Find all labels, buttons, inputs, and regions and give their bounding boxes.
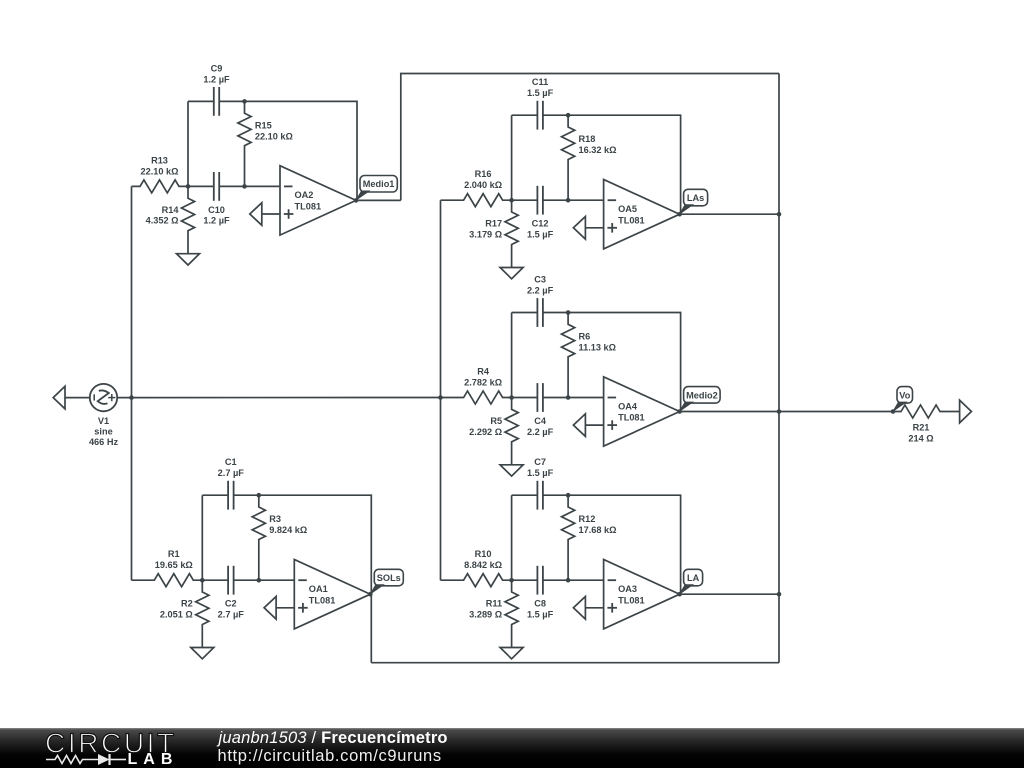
top feedback wire (left of C7) [512,494,538,496]
node OA2 junction dot [186,184,191,189]
resistor R10 (8.842 k&#937;) with input lead wires [441,574,512,587]
svg-text:TL081: TL081 [618,413,645,423]
svg-text:LAs: LAs [687,193,704,203]
wire port arrow to OA5 plus input [585,227,603,229]
svg-text:22.10 kΩ: 22.10 kΩ [140,166,178,176]
wire from OA2 output up and across the top [401,74,779,201]
top feedback wire (left of C3) [512,312,538,314]
junction dot at R18 bottom node [566,198,571,203]
wire node to C12 [512,199,538,201]
svg-text:R2: R2 [181,599,193,609]
svg-text:Medio1: Medio1 [363,179,395,189]
svg-text:4.352 Ω: 4.352 Ω [146,216,179,226]
svg-text:2.7 µF: 2.7 µF [218,610,245,620]
svg-text:2.051 Ω: 2.051 Ω [160,610,193,620]
junction dot at R12 bottom node [566,578,571,583]
svg-text:17.68 kΩ: 17.68 kΩ [579,525,617,535]
top feedback wire (left of C11) [512,114,538,116]
resistor R16 (2.040 k&#937;) with input lead wires [441,194,512,207]
svg-text:16.32 kΩ: 16.32 kΩ [579,145,617,155]
wire V1 to input buses [117,397,440,399]
svg-text:2.040 kΩ: 2.040 kΩ [464,180,502,190]
svg-text:R21: R21 [913,423,930,433]
wire OA5 output to right bus [680,213,779,215]
resistor R5 (2.292 &#937;) to ground [505,398,518,465]
node OA1 junction dot [200,578,205,583]
junction dot on right bus at OA5 output [777,212,782,217]
svg-text:TL081: TL081 [295,202,322,212]
wire C12 to op-amp inverting input [543,199,604,201]
svg-text:LA: LA [687,573,700,583]
op-amp OA4 (TL081) triangle [604,377,680,446]
junction dot at R6 top node [566,310,571,315]
resistor R17 (3.179 &#937;) to ground [505,200,518,267]
CircuitLab logo text LAB [128,752,179,768]
svg-text:11.13 kΩ: 11.13 kΩ [579,343,617,353]
op-amp OA4 non-inverting input plus sign [607,424,617,426]
resistor R1 (19.65 k&#937;) with input lead wires [132,574,203,587]
svg-text:3.289 Ω: 3.289 Ω [469,610,502,620]
resistor R4 (2.782 k&#937;) with input lead wires [441,391,512,404]
op-amp OA2 (TL081) triangle [280,166,356,235]
capacitor C12 (1.5 &#181;F) [536,186,538,215]
ground symbol below R14 [177,254,200,265]
op-amp OA5 (TL081) triangle [604,180,680,249]
op-amp OA4 inverting input minus sign [608,397,617,399]
footer url line [218,748,442,765]
left vertical bus wire [131,186,133,580]
wire OA2 output to top-right corner riser [356,199,401,201]
svg-text:TL081: TL081 [618,595,645,605]
node flag LA at OA3 output [684,569,703,586]
wire node to C8 [512,579,538,581]
capacitor C10 (1.2 &#181;F) [213,172,215,201]
capacitor C9 (1.2 &#181;F) [213,87,215,116]
capacitor C2 (2.7 &#181;F) [227,566,229,595]
svg-text:1.2 µF: 1.2 µF [203,74,230,84]
junction dot at R3 top node [257,493,262,498]
svg-text:2.2 µF: 2.2 µF [527,286,554,296]
wire port arrow to OA4 plus input [585,424,603,426]
svg-text:TL081: TL081 [618,215,645,225]
ground symbol below R17 [500,268,523,279]
wire C2 to op-amp inverting input [234,579,295,581]
svg-text:1.2 µF: 1.2 µF [203,216,230,226]
node flag Medio2 at OA4 output [684,387,721,404]
svg-text:C4: C4 [534,416,547,426]
svg-text:R15: R15 [255,120,272,130]
svg-text:C7: C7 [534,457,546,467]
svg-text:TL081: TL081 [309,595,336,605]
op-amp OA5 inverting input minus sign [608,199,617,201]
top feedback wire (right of C7) down to output [543,495,681,594]
footer branding bar [0,728,1024,768]
junction dot on right bus at OA4 output [777,409,782,414]
CircuitLab logo resistor-diode glyph [44,752,128,767]
capacitor C7 (1.5 &#181;F) [536,481,538,510]
top feedback wire (right of C11) down to output [543,115,681,214]
svg-text:C3: C3 [534,275,546,285]
svg-text:R5: R5 [490,416,502,426]
svg-text:1.5 µF: 1.5 µF [527,230,554,240]
wire node to C10 [188,185,214,187]
svg-text:1.5 µF: 1.5 µF [527,88,554,98]
junction dot at R18 top node [566,113,571,118]
svg-text:Vo: Vo [899,390,910,400]
right vertical bus wire [778,74,780,663]
junction dot at R3 bottom node [257,578,262,583]
svg-text:2.2 µF: 2.2 µF [527,427,554,437]
svg-text:3.179 Ω: 3.179 Ω [469,230,502,240]
resistor R2 (2.051 &#937;) to ground [196,580,209,647]
svg-text:R4: R4 [477,366,490,376]
svg-text:R6: R6 [579,332,591,342]
capacitor C1 (2.7 &#181;F) [227,481,229,510]
resistor R15 (22.10 k&#937;) feedback [238,101,251,186]
node flag SOLs at OA1 output [374,569,403,586]
svg-text:R12: R12 [579,514,596,524]
node flag Medio1 at OA2 output [360,176,397,193]
svg-text:1.5 µF: 1.5 µF [527,610,554,620]
svg-text:SOLs: SOLs [377,573,401,583]
port arrow at OA1 non-inverting input [264,597,276,620]
svg-text:214 Ω: 214 Ω [908,433,933,443]
svg-text:OA5: OA5 [618,204,637,214]
junction dot at R15 top node [242,99,247,104]
svg-text:2.782 kΩ: 2.782 kΩ [464,377,502,387]
svg-text:R14: R14 [162,205,180,215]
wire OA3 output to right bus [680,593,779,595]
op-amp OA1 non-inverting input plus sign [298,607,308,609]
op-amp OA3 non-inverting input plus sign [607,607,617,609]
port arrow at OA2 non-inverting input [250,203,262,226]
svg-text:8.842 kΩ: 8.842 kΩ [464,560,502,570]
svg-text:1.5 µF: 1.5 µF [527,468,554,478]
svg-text:C2: C2 [225,599,237,609]
svg-text:R3: R3 [269,514,281,524]
resistor R12 (17.68 k&#937;) feedback [562,495,575,580]
wire node to C4 [512,397,538,399]
resistor R3 (9.824 k&#937;) feedback [252,495,265,580]
ground symbol below R2 [191,648,214,659]
op-amp OA1 (TL081) triangle [294,560,370,629]
svg-text:OA2: OA2 [295,190,314,200]
capacitor C4 (2.2 &#181;F) [536,383,538,412]
wire C10 to op-amp inverting input [219,185,280,187]
resistor R11 (3.289 &#937;) to ground [505,580,518,647]
svg-text:OA4: OA4 [618,401,638,411]
op-amp OA1 inverting input minus sign [298,579,307,581]
svg-text:OA3: OA3 [618,584,637,594]
wire input arrow to V1 [65,397,90,399]
port arrow at circuit input (left) [53,386,65,409]
svg-text:Medio2: Medio2 [686,390,718,400]
svg-text:2.7 µF: 2.7 µF [218,468,245,478]
wire riser from node up to feedback branch [511,115,513,200]
svg-text:466 Hz: 466 Hz [89,437,119,447]
wire port arrow to OA3 plus input [585,607,603,609]
wire node to C2 [202,579,228,581]
capacitor C3 (2.2 &#181;F) [536,298,538,327]
wire OA1 output down to bottom bus [370,594,372,663]
capacitor C8 (1.5 &#181;F) [536,566,538,595]
top feedback wire (right of C1) down to output [234,495,372,594]
node OA3 junction dot [509,578,514,583]
node flag Vo [897,387,913,404]
svg-text:2.292 Ω: 2.292 Ω [469,427,502,437]
ground symbol below R11 [500,648,523,659]
svg-text:sine: sine [94,427,112,437]
svg-text:19.65 kΩ: 19.65 kΩ [155,560,193,570]
svg-text:R18: R18 [579,134,596,144]
svg-text:R11: R11 [486,599,502,609]
bottom bus wire [371,662,779,664]
svg-text:9.824 kΩ: 9.824 kΩ [269,525,307,535]
op-amp OA3 (TL081) triangle [604,560,680,629]
op-amp OA5 non-inverting input plus sign [607,227,617,229]
wire port arrow to OA2 plus input [262,213,280,215]
svg-text:R17: R17 [485,219,502,229]
top feedback wire (right of C3) down to output [543,313,681,412]
op-amp OA3 inverting input minus sign [608,579,617,581]
svg-text:C1: C1 [225,457,237,467]
top feedback wire (left of C1) [202,494,228,496]
wire right bus to R21 [779,405,960,418]
port arrow at OA3 non-inverting input [573,597,585,620]
wire riser from node up to feedback branch [511,495,513,580]
node flag LAs at OA5 output [684,189,708,206]
port arrow at OA5 non-inverting input [573,217,585,240]
svg-text:V1: V1 [98,416,109,426]
node OA4 junction dot [509,395,514,400]
ground symbol below R5 [500,465,523,476]
svg-text:R13: R13 [151,155,168,165]
CircuitLab logo text CIRCUIT [0,728,220,768]
junction dot on right bus at OA3 output [777,592,782,597]
junction dot V1 wire x left bus [129,395,134,400]
svg-text:C12: C12 [532,219,549,229]
op-amp OA2 non-inverting input plus sign [284,213,294,215]
svg-text:R10: R10 [475,549,492,559]
wire riser from node up to feedback branch [201,495,203,580]
voltage source V1 (sine 466 Hz) [90,384,117,411]
capacitor C11 (1.5 &#181;F) [536,101,538,130]
top feedback wire (left of C9) [188,100,214,102]
svg-text:22.10 kΩ: 22.10 kΩ [255,131,293,141]
svg-text:C11: C11 [532,77,548,87]
junction dot middle bus x main wire [438,395,443,400]
svg-text:C10: C10 [208,205,225,215]
wire C8 to op-amp inverting input [543,579,604,581]
middle vertical bus wire [440,200,442,580]
top feedback wire (right of C9) down to output [219,101,357,200]
wire riser from node up to feedback branch [187,101,189,186]
node OA5 junction dot [509,198,514,203]
resistor R6 (11.13 k&#937;) feedback [562,313,575,398]
resistor R14 (4.352 &#937;) to ground [181,186,194,253]
junction dot at R15 bottom node [242,184,247,189]
wire riser from node up to feedback branch [511,313,513,398]
wire C4 to op-amp inverting input [543,397,604,399]
junction dot at R6 bottom node [566,395,571,400]
svg-text:R16: R16 [475,169,492,179]
resistor R18 (16.32 k&#937;) feedback [562,115,575,200]
footer title line [219,730,448,747]
junction dot at R12 top node [566,493,571,498]
op-amp OA2 inverting input minus sign [284,185,293,187]
wire OA4 output to right bus [680,411,779,413]
port arrow at circuit output (right) [960,400,972,423]
wire port arrow to OA1 plus input [276,607,294,609]
resistor R13 (22.10 k&#937;) with input lead wires [132,180,189,193]
svg-text:C8: C8 [534,599,546,609]
port arrow at OA4 non-inverting input [573,414,585,437]
svg-text:OA1: OA1 [309,584,328,594]
svg-text:C9: C9 [211,63,223,73]
svg-text:R1: R1 [168,549,180,559]
